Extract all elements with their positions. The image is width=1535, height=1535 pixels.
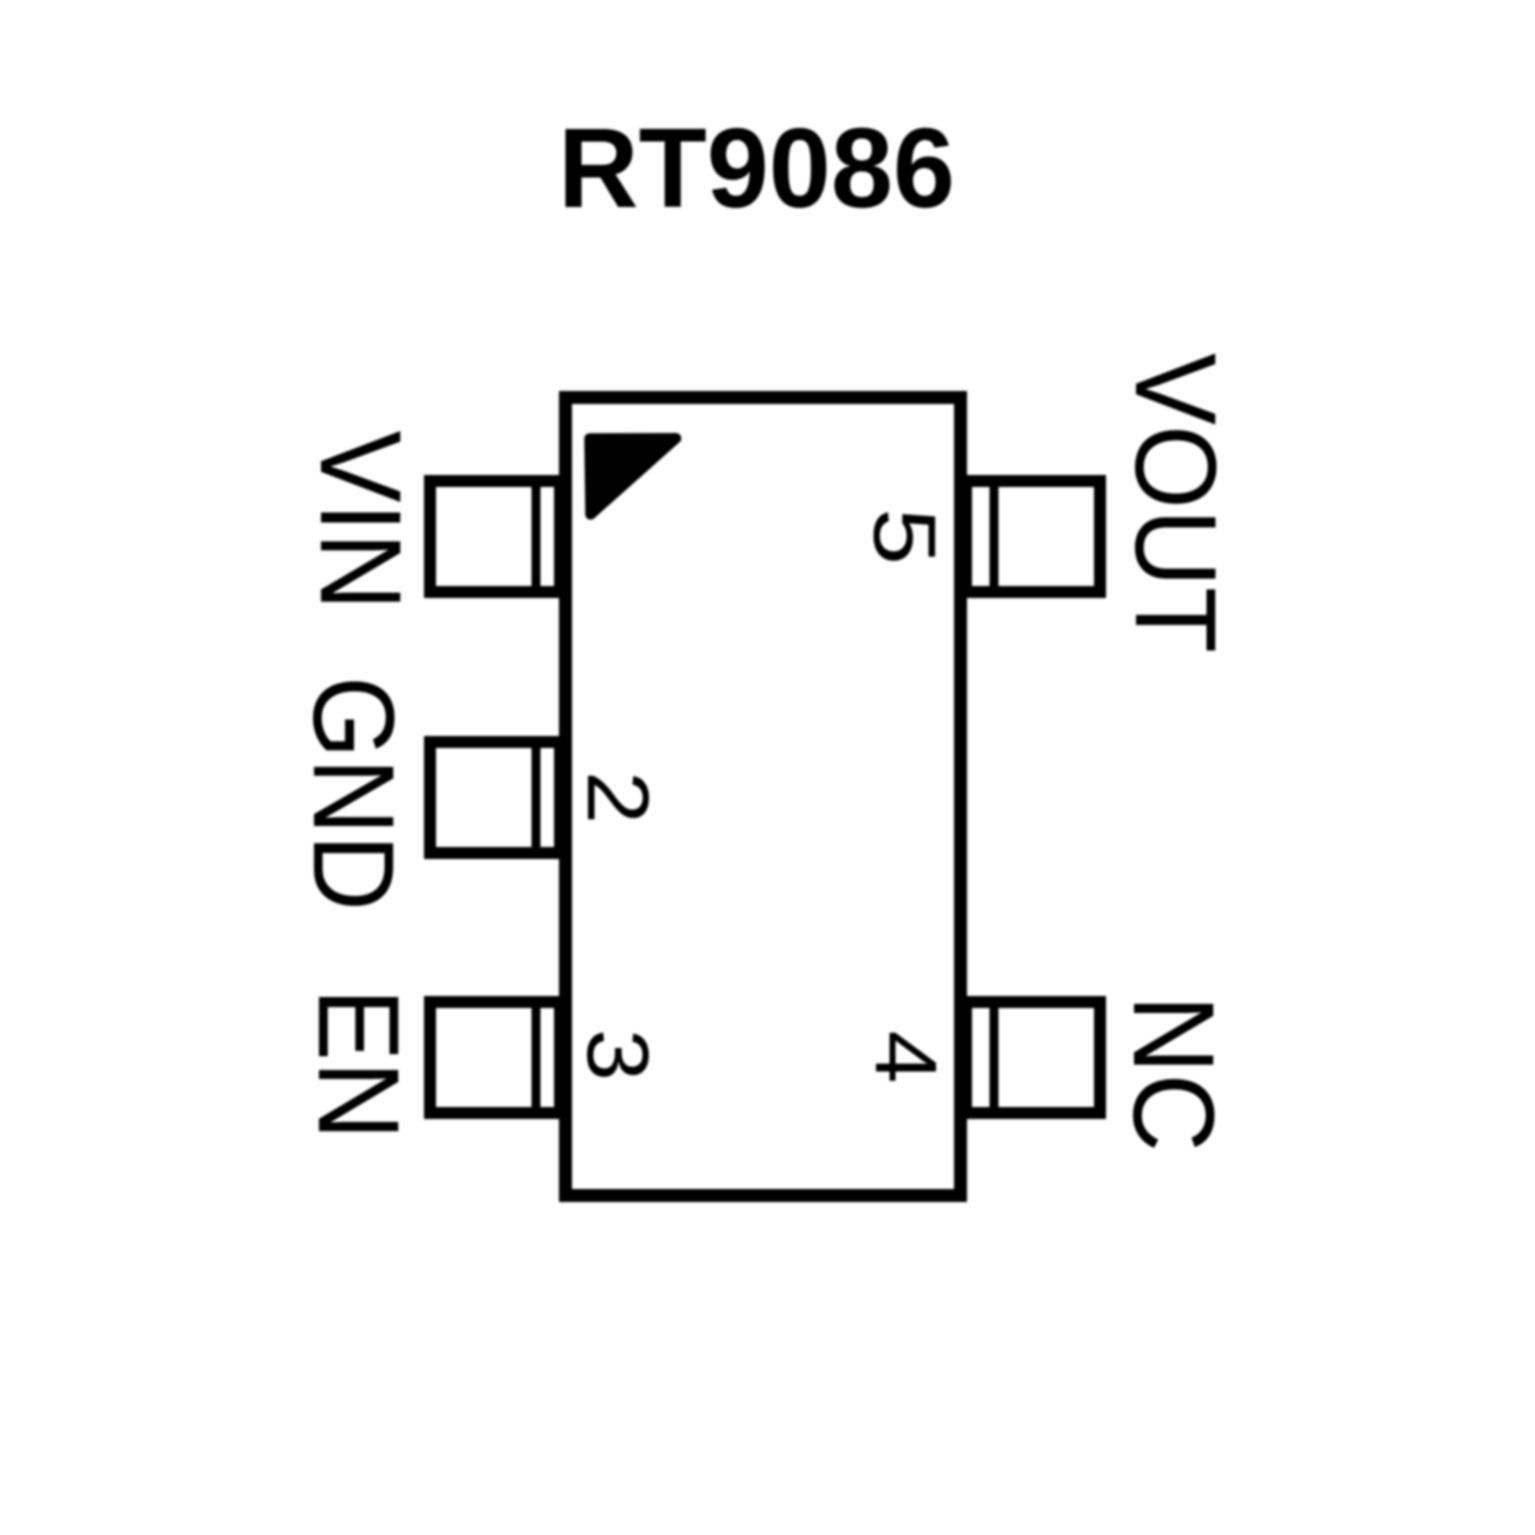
svg-text:VOUT: VOUT [1111,353,1239,653]
pin 4 pad NC [966,1002,1100,1113]
pin 5 pad VOUT [966,481,1100,592]
svg-text:5: 5 [856,508,955,565]
pin 1 pad divider [532,475,541,598]
svg-text:NC: NC [1109,995,1237,1152]
svg-text:EN: EN [294,988,422,1140]
svg-text:2: 2 [569,771,666,824]
pin 1 pad VIN [430,481,560,592]
svg-text:RT9086: RT9086 [558,105,955,231]
pin 2 pad GND [430,742,560,853]
pin 1 marker triangle [590,438,677,514]
svg-text:3: 3 [569,1029,666,1081]
IC body U1 [566,398,961,1196]
pin 3 pad divider [532,996,541,1118]
svg-text:GND: GND [289,676,417,911]
pin 4 pad divider [990,996,999,1118]
svg-text:4: 4 [857,1031,954,1084]
pin 5 pad divider [990,475,999,598]
svg-text:VIN: VIN [296,431,424,611]
pin 2 pad divider [532,736,541,858]
pin 3 pad EN [430,1002,560,1113]
